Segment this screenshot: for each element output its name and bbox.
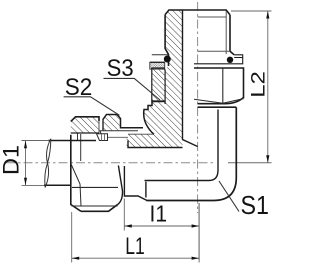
L1 dimension line [72, 257, 199, 259]
stud thread chamfer line top [198, 16, 227, 18]
nut internal step line [80, 134, 82, 161]
S1 label leader [219, 181, 239, 212]
stud thread minor line right [225, 11, 227, 54]
nut bottom edge [81, 204, 118, 211]
body hex bump hatch [103, 115, 121, 131]
L2 dimension line [267, 11, 269, 163]
svg-text:S1: S1 [241, 190, 270, 220]
stud thread base line [198, 50, 230, 52]
seal washer top line (section side) [152, 54, 169, 56]
vertical centerline solid extension to L1 dim [198, 203, 200, 260]
neck between nut and block [124, 166, 147, 201]
stud outline left (sectioned wall) [165, 15, 168, 66]
bore mouth line [128, 133, 154, 135]
elbow block left face [145, 182, 147, 198]
svg-text:D1: D1 [0, 145, 24, 175]
L1 arrows [72, 257, 80, 260]
D1 arrows [24, 141, 27, 149]
locknut section hatch band [152, 68, 165, 101]
body section hatch (sectioned elbow body: stud wall + molded profile) [127, 10, 183, 148]
S3 label underline and leader [104, 78, 161, 100]
compression nut section hatch band [71, 117, 99, 133]
locknut S3: left sectioned wall outline [152, 68, 165, 101]
locknut chamfer V at bottom [194, 99, 244, 104]
tube bottom line [44, 184, 71, 186]
port thread minor line [105, 136, 129, 138]
svg-text:S2: S2 [65, 74, 93, 101]
D1 dimension extension lines [22, 141, 50, 186]
compression nut S2: sectioned band outline [71, 117, 99, 122]
ferrule (cutting ring) [97, 134, 108, 141]
L2 dimension extension line top [231, 10, 272, 12]
o-ring right (black) [227, 57, 233, 63]
horizontal centerline solid extension to L2 dim [228, 162, 272, 164]
tube break lines [45, 139, 51, 188]
svg-text:L1: L1 [125, 233, 145, 260]
body hex bump outline + ledge [103, 115, 143, 131]
vertical centerline [197, 2, 199, 213]
stud thread interface inside locknut [164, 70, 166, 105]
svg-text:I1: I1 [150, 201, 168, 227]
nut bore line [71, 132, 99, 134]
body bore top line (horizontal passage) [128, 141, 183, 148]
I1 dimension line [124, 225, 199, 227]
horizontal centerline [6, 162, 216, 164]
tube top line [48, 140, 96, 142]
body thread port under nut [100, 131, 138, 141]
D1 dimension line [25, 141, 27, 186]
nut back edge below center [118, 166, 123, 205]
nut front cone slants [71, 164, 81, 207]
stud top edge [165, 10, 230, 15]
seal washer right external [194, 55, 243, 64]
locknut external (right): top, right, bottom edges [194, 68, 244, 104]
elbow block flat-face boundary (inner rounded corner) [145, 110, 219, 181]
I1 dimension extension line [123, 199, 125, 231]
elbow block outer right wall + corner + bottom [147, 107, 237, 200]
stud right wall (external) [230, 15, 234, 55]
svg-text:L2: L2 [247, 71, 269, 98]
nut hex face divider (bottom view) [72, 186, 118, 188]
I1 arrows [124, 224, 132, 227]
seal washer stippled section [150, 62, 165, 69]
o-ring section left (black) [164, 56, 171, 63]
L2 arrows [266, 11, 269, 19]
nut front face [71, 135, 81, 212]
elbow block top face [198, 106, 237, 108]
nut hex corner ridge line [72, 205, 118, 207]
locknut hex face divider [222, 68, 224, 103]
thread gap notch lines [99, 119, 103, 133]
S2 label underline and leader [64, 97, 120, 116]
body molded profile below locknut (section boundary) [144, 102, 165, 135]
svg-text:S3: S3 [107, 55, 134, 82]
L1 dimension extension line [72, 203, 199, 263]
stud bore line [183, 10, 198, 147]
